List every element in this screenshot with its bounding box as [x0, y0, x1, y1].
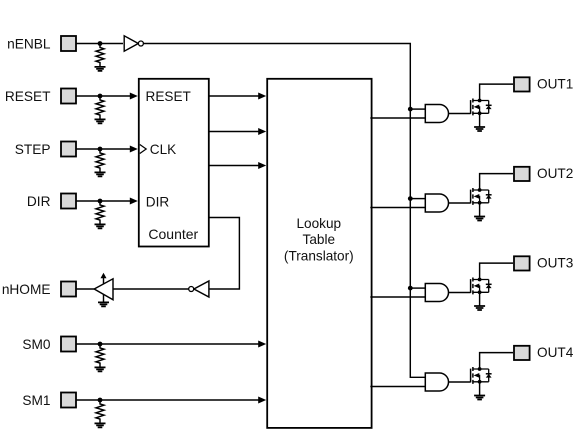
svg-text:OUT1: OUT1 — [537, 77, 573, 92]
ground for Q2 — [474, 217, 485, 221]
wire DIR pad to Counter — [77, 200, 131, 202]
junction dot enable rail at AND1 — [408, 107, 413, 112]
inverter/buffer U-ENBL — [124, 36, 138, 51]
svg-text:DIR: DIR — [27, 194, 51, 209]
wire nENBL pad to inverter — [77, 43, 124, 45]
wire AND4 output to gate of Q4 — [449, 381, 471, 383]
ground on nHOME driver — [103, 294, 105, 302]
transistor Q3 (output NMOS) — [471, 263, 513, 306]
wire Lookup Table to AND4 lower input — [370, 386, 425, 388]
svg-text:SM0: SM0 — [22, 337, 51, 352]
pad SM0 — [61, 337, 76, 352]
transistor Q4 (output NMOS) — [471, 353, 513, 396]
ground R-SM0 — [95, 367, 106, 371]
arrowhead STEP into Counter — [130, 146, 138, 153]
pad nENBL — [61, 36, 76, 51]
transistor Q1 (output NMOS) — [471, 84, 513, 127]
inverter U-HOME — [194, 281, 209, 297]
pad SM1 — [61, 393, 76, 408]
pad DIR — [61, 194, 76, 209]
ground R-STEP — [95, 172, 106, 176]
svg-text:DIR: DIR — [146, 194, 170, 209]
svg-text:Counter: Counter — [148, 226, 198, 242]
svg-text:nHOME: nHOME — [2, 282, 51, 297]
pad nHOME — [61, 282, 76, 297]
ground for Q3 — [474, 306, 485, 310]
ground for Q4 — [474, 396, 485, 400]
ground R-DIR — [95, 224, 106, 228]
wire Lookup Table to AND3 lower input — [370, 296, 425, 298]
svg-text:Lookup: Lookup — [296, 216, 341, 231]
wire Lookup Table to AND2 lower input — [370, 207, 425, 209]
junction dot R-SM0 — [98, 342, 103, 347]
resistor R-SM1 pulldown — [96, 400, 104, 423]
AND gate AND4 — [425, 373, 448, 391]
pad OUT1 — [514, 77, 530, 91]
junction dot R-nENBL — [98, 41, 103, 46]
pad STEP — [61, 142, 76, 157]
pad OUT4 — [514, 346, 530, 360]
junction dot R-STEP — [98, 147, 103, 152]
wire Counter output 1 to Lookup Table — [209, 95, 260, 97]
svg-text:(Translator): (Translator) — [284, 249, 354, 264]
wire Counter output 3 to Lookup Table — [209, 165, 260, 167]
pad OUT2 — [514, 167, 530, 181]
svg-text:RESET: RESET — [146, 89, 191, 104]
junction dot R-SM1 — [98, 398, 103, 403]
svg-text:RESET: RESET — [5, 89, 51, 104]
arrowhead SM0 into Lookup Table — [258, 341, 266, 348]
AND gate AND2 — [425, 194, 448, 212]
wire Counter output 2 to Lookup Table — [209, 131, 260, 133]
resistor R-DIR pulldown — [96, 201, 104, 224]
transistor Q2 (output NMOS) — [471, 174, 513, 217]
resistor R-STEP pulldown — [96, 149, 104, 172]
arrowhead SM1 into Lookup Table — [258, 397, 266, 404]
resistor R-SM0 pulldown — [96, 344, 104, 367]
counter block U1 — [139, 79, 209, 247]
junction dot enable rail at AND2 — [408, 196, 413, 201]
wire SM0 pad to Lookup Table — [77, 343, 260, 345]
pull-up arrow on nHOME driver — [103, 277, 105, 284]
lookup table block U2 — [267, 79, 371, 428]
AND gate AND3 — [425, 284, 448, 302]
svg-text:Table: Table — [303, 232, 336, 247]
svg-text:nENBL: nENBL — [7, 37, 51, 52]
ground R-SM1 — [95, 423, 106, 427]
wire enable rail to AND3 upper input — [410, 287, 425, 289]
wire AND2 output to gate of Q2 — [449, 202, 471, 204]
ground for Q1 — [474, 127, 485, 131]
ground R-RESET — [95, 119, 106, 123]
AND gate AND1 — [425, 105, 448, 123]
wire inverter to nHOME driver — [113, 288, 189, 290]
junction dot R-DIR — [98, 199, 103, 204]
wire STEP pad to Counter — [77, 148, 131, 150]
wire nHOME driver to pad — [77, 288, 95, 290]
ground R-nENBL — [95, 67, 106, 71]
clock wedge on CLK pin — [140, 145, 146, 154]
wire enable rail to AND2 upper input — [410, 198, 425, 200]
wire SM1 pad to Lookup Table — [77, 399, 260, 401]
pad OUT3 — [514, 256, 530, 270]
wire Lookup Table to AND1 lower input — [370, 117, 425, 119]
arrowhead RESET into Counter — [130, 93, 138, 100]
svg-text:SM1: SM1 — [22, 393, 50, 408]
wire Counter home output to inverter U-HOME — [209, 218, 240, 290]
svg-text:STEP: STEP — [15, 142, 51, 157]
resistor R-RESET pulldown — [96, 96, 104, 119]
wire AND3 output to gate of Q3 — [449, 292, 471, 294]
svg-text:CLK: CLK — [150, 142, 176, 157]
junction dot R-RESET — [98, 94, 103, 99]
wire nENBL enable net: inverter to vertical enable rail — [144, 44, 426, 378]
svg-text:OUT4: OUT4 — [537, 345, 574, 360]
pad RESET — [61, 89, 76, 104]
svg-text:OUT3: OUT3 — [537, 256, 573, 271]
arrowhead DIR into Counter — [130, 198, 138, 205]
junction dot enable rail at AND3 — [408, 286, 413, 291]
svg-text:OUT2: OUT2 — [537, 166, 573, 181]
wire enable rail to AND1 upper input — [410, 108, 425, 110]
wire AND1 output to gate of Q1 — [449, 113, 471, 115]
wire RESET pad to Counter — [77, 95, 131, 97]
open-drain driver (nHOME) — [94, 279, 113, 300]
resistor R-nENBL pulldown — [96, 44, 104, 67]
